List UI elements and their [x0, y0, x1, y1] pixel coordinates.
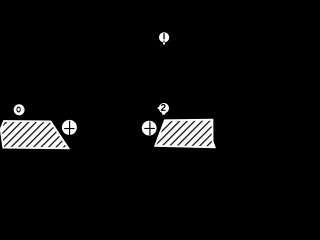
joint anchor right (circle with cross)	[142, 121, 157, 136]
ground block right (hatched static body)	[155, 120, 215, 148]
joint anchor left (circle with cross)	[62, 120, 77, 135]
ground block left (hatched static body)	[1, 121, 69, 148]
body marker 2	[158, 103, 169, 115]
body marker 0	[14, 104, 25, 115]
body marker 1	[159, 32, 169, 44]
